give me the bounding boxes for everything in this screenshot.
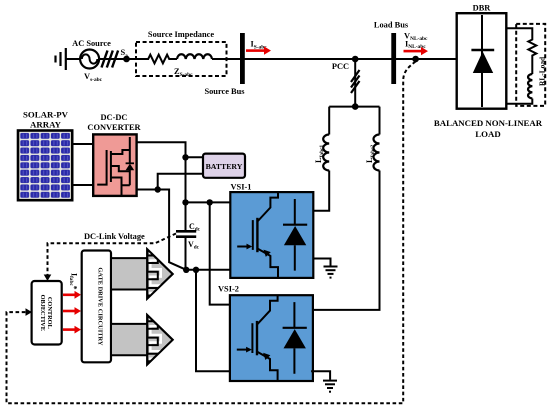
- node negative bus 1: [183, 267, 189, 273]
- wire VSI-2 ground: [311, 371, 330, 380]
- AC source V_s-abc: [80, 50, 99, 69]
- node battery positive: [182, 154, 188, 160]
- RL load dashed box: [516, 24, 545, 106]
- solar PV array panel: [18, 131, 72, 201]
- VSI-1 box: [230, 192, 313, 278]
- current arrow I_S-abc (red): [246, 46, 271, 54]
- svg-text:CONTROLOBJECTIVE: CONTROLOBJECTIVE: [39, 295, 53, 331]
- ground (VSI-1): [324, 267, 338, 278]
- svg-text:LOAD: LOAD: [475, 129, 500, 139]
- svg-text:AC Source: AC Source: [72, 39, 111, 48]
- inductor L_fabc2: [374, 135, 380, 171]
- wire L_fabc1 to VSI-1 output: [313, 171, 329, 211]
- inductor L_fabc1: [323, 135, 329, 171]
- svg-text:RL-Load: RL-Load: [538, 56, 547, 86]
- current arrow I_NL-abc (red): [404, 47, 429, 55]
- svg-text:SOLAR-PV: SOLAR-PV: [23, 110, 69, 120]
- resistor Z_s (zigzag): [146, 55, 171, 64]
- diode D1 (DBR): [471, 15, 494, 107]
- inductor Z_s (coil): [177, 54, 212, 59]
- svg-text:BATTERY: BATTERY: [206, 162, 243, 171]
- IGBT T1: [237, 192, 278, 278]
- node PCC lower junction: [352, 103, 359, 110]
- node DC-DC negative out: [155, 186, 161, 192]
- node positive bus 2: [207, 199, 213, 205]
- svg-text:DC-Link Voltage: DC-Link Voltage: [84, 232, 145, 241]
- node positive bus 1: [182, 199, 188, 205]
- wire DC-DC to DC link (top): [137, 142, 186, 157]
- gate pulse arrow 2 (to VSI-2): [111, 310, 173, 370]
- svg-text:ARRAY: ARRAY: [30, 120, 62, 130]
- svg-text:Source Bus: Source Bus: [204, 87, 245, 96]
- arrowhead into control objective (left): [26, 308, 33, 316]
- wire L_fabc2 to VSI-2 output: [311, 171, 379, 310]
- node negative bus 2: [193, 267, 199, 273]
- dashed DC-link sense line: [48, 234, 177, 277]
- svg-text:PCC: PCC: [332, 62, 349, 71]
- svg-text:Load Bus: Load Bus: [374, 21, 409, 30]
- wire: main top line segments: [66, 58, 457, 60]
- wire battery negative: [158, 174, 203, 190]
- wire DC-DC negative out: [137, 190, 187, 270]
- node load bus / DBR: [412, 56, 419, 63]
- svg-text:VSI-2: VSI-2: [218, 285, 239, 294]
- wire positive DC bus: [186, 201, 231, 203]
- wire VSI-1 ground: [313, 259, 330, 267]
- load bus bar: [391, 33, 396, 84]
- arrowhead into control objective (top): [44, 275, 52, 282]
- wire battery positive: [186, 156, 204, 158]
- IGBT T2: [237, 295, 278, 381]
- three-phase slashes (PCC): [351, 70, 360, 93]
- capacitor C_dc: [176, 202, 196, 269]
- gate drive circuitry box: [82, 251, 111, 363]
- wire PV to DC-DC (top): [72, 143, 93, 145]
- node S_a: [123, 56, 130, 63]
- wire DBR to RL load (bottom): [506, 99, 532, 104]
- svg-text:Source Impedance: Source Impedance: [148, 30, 214, 39]
- DBR box: [457, 13, 507, 109]
- svg-text:DC-DC: DC-DC: [101, 113, 128, 122]
- source bus bar: [240, 33, 245, 84]
- wire negative feed to VSI-2: [196, 270, 230, 372]
- dashed feedback line (load bus to bottom): [7, 62, 416, 404]
- three-phase slashes (source): [102, 51, 119, 68]
- diode (VSI-1): [283, 199, 307, 271]
- battery: [203, 154, 245, 178]
- wire PCC to feeder branches: [329, 107, 379, 135]
- inductor L (RL load): [528, 74, 532, 98]
- svg-text:BALANCED NON-LINEAR: BALANCED NON-LINEAR: [434, 118, 543, 128]
- source impedance dashed box: [136, 42, 227, 76]
- ground (AC source left): [56, 48, 66, 70]
- svg-text:CONVERTER: CONVERTER: [87, 123, 141, 132]
- wire PCC vertical: [354, 59, 356, 107]
- wire DBR to RL load (top): [506, 28, 532, 38]
- control objective box: [32, 281, 62, 345]
- reference arrows I_fabc* (red): [63, 291, 81, 334]
- wire R to L: [531, 58, 533, 75]
- svg-text:GATE DRIVE CIRCUITRY: GATE DRIVE CIRCUITRY: [97, 267, 104, 346]
- ground (VSI-2): [323, 381, 337, 392]
- wire negative DC bus: [186, 269, 230, 271]
- wire DC link vertical (to positive bus): [185, 157, 187, 202]
- DC-DC converter box: [93, 134, 136, 196]
- diode (DC-DC): [126, 164, 135, 171]
- svg-text:VSI-1: VSI-1: [231, 183, 252, 192]
- MOSFET Q (DC-DC): [97, 137, 134, 195]
- gate pulse arrow 1 (to VSI-1): [111, 244, 173, 304]
- VSI-2 box: [230, 295, 313, 381]
- resistor R (RL load, vertical zigzag): [528, 38, 536, 58]
- wire positive feed to VSI-2: [210, 202, 230, 304]
- diode (VSI-2): [283, 302, 307, 374]
- node PCC: [352, 56, 359, 63]
- svg-text:DBR: DBR: [473, 4, 492, 13]
- wire PV to DC-DC (bottom): [72, 184, 93, 186]
